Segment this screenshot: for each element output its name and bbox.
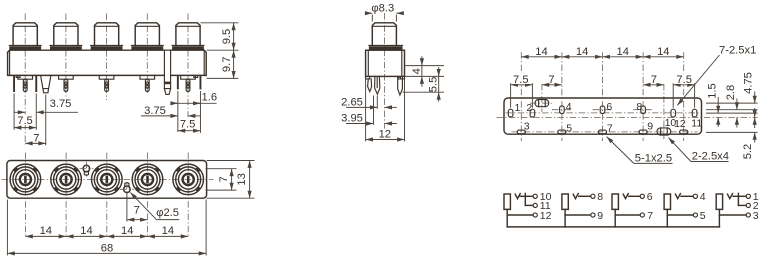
dim phi8.3 ext lines — [371, 15, 373, 22]
ground slot 2 (2.5x4) — [657, 128, 671, 135]
terminal 12 — [533, 213, 537, 217]
terminal 6 — [640, 194, 644, 198]
svg-text:7: 7 — [33, 132, 39, 144]
svg-text:14: 14 — [576, 46, 588, 58]
centerline single jack — [384, 13, 386, 138]
main horizontal centerline — [497, 116, 758, 118]
svg-text:12: 12 — [540, 210, 552, 222]
dim 2.8 — [736, 99, 738, 110]
svg-text:2: 2 — [526, 102, 532, 114]
dim 7 right (front) — [231, 169, 233, 190]
bottom tabs — [366, 76, 370, 79]
svg-text:1.5: 1.5 — [707, 83, 719, 99]
svg-text:13: 13 — [236, 173, 248, 185]
svg-text:14: 14 — [616, 46, 628, 58]
dim 12 — [366, 139, 405, 141]
dim 7 left — [25, 142, 46, 144]
pin 9 slot — [639, 130, 647, 134]
svg-text:7: 7 — [218, 176, 230, 182]
dim 7 right (bottom view) — [643, 84, 664, 86]
front centerline conn 5 — [187, 153, 189, 238]
svg-text:2-2.5x4: 2-2.5x4 — [692, 151, 729, 163]
svg-text:6: 6 — [606, 101, 612, 113]
svg-text:4: 4 — [411, 68, 423, 74]
body bottom step left — [16, 75, 20, 77]
jack symbol 3 (pins 6,7) — [612, 194, 640, 227]
dim 7.5 right: ext pin 11 — [199, 91, 201, 133]
body inner wall right — [203, 50, 205, 75]
svg-text:3.75: 3.75 — [50, 98, 72, 110]
dim 5.2 — [754, 108, 756, 117]
dim 7 left: ext line ground pin — [45, 95, 47, 146]
svg-text:14: 14 — [80, 225, 92, 237]
centerline jack 4 — [146, 14, 148, 94]
pin lug 3 (right) — [398, 76, 403, 95]
dim 7.5 left (bottom view) — [511, 84, 533, 86]
terminal 4 — [693, 194, 697, 198]
dim 5.5 — [438, 76, 440, 92]
front horizontal centerline — [2, 178, 214, 180]
dim 13 — [249, 161, 251, 199]
pin lug 2 — [375, 76, 380, 94]
svg-text:4: 4 — [566, 101, 572, 113]
centerline slot 1 — [541, 84, 543, 112]
svg-text:12: 12 — [379, 129, 391, 141]
connector 4 front — [132, 164, 163, 195]
dim 12: ext lines — [365, 80, 367, 142]
connector 2 front — [51, 164, 82, 195]
switch pin 1 (thin) — [13, 76, 15, 92]
connector 3 front — [92, 164, 123, 195]
svg-text:7.5: 7.5 — [676, 74, 692, 86]
svg-text:14: 14 — [162, 225, 174, 237]
pin 3 slot — [517, 130, 525, 134]
ground bar pin between jacks 4-5 — [165, 51, 170, 88]
svg-text:8: 8 — [636, 101, 642, 113]
dim 3.95 — [346, 123, 374, 125]
dim 7.5 left: ext line pin1 — [13, 94, 15, 130]
body outline side view — [8, 50, 207, 75]
terminal 3 — [746, 213, 750, 217]
svg-text:4.75: 4.75 — [742, 72, 754, 94]
svg-text:68: 68 — [101, 243, 113, 255]
slot1 horizontal centerline — [530, 102, 554, 104]
jack symbol 1 (pins 10,11,12) — [504, 193, 533, 227]
jack 5 side — [172, 23, 204, 92]
svg-text:7.5: 7.5 — [17, 115, 33, 127]
ground pin trapezoid between jacks 1-2 — [41, 75, 51, 92]
terminal 10 — [533, 194, 537, 198]
dim 9.5 / 9.7 extension lines (right of view 1) — [201, 22, 239, 24]
jack 4 side — [131, 23, 163, 92]
body inner wall left — [9, 50, 11, 75]
svg-text:14: 14 — [121, 225, 133, 237]
svg-text:7: 7 — [548, 74, 554, 86]
svg-text:5.5: 5.5 — [428, 77, 440, 93]
row A centerline — [506, 112, 702, 114]
svg-text:11: 11 — [691, 118, 702, 130]
pin 1 slot — [508, 109, 513, 117]
svg-text:7.5: 7.5 — [180, 118, 196, 130]
terminal 1 — [746, 194, 750, 198]
flange — [369, 45, 403, 47]
dim 4.75 — [754, 92, 756, 104]
row B centerline segments — [552, 109, 572, 111]
svg-text:3.95: 3.95 — [341, 113, 363, 125]
dim 3.75 left — [15, 111, 26, 113]
mounting hole 1 (top) — [83, 165, 90, 172]
pin 12 slot — [680, 130, 688, 134]
dim phi8.3 — [365, 12, 372, 14]
pin 8 slot — [641, 106, 646, 114]
svg-text:φ8.3: φ8.3 — [371, 2, 394, 14]
svg-text:φ2.5: φ2.5 — [156, 207, 179, 219]
terminal 9 — [591, 213, 595, 217]
pin 2 slot — [530, 109, 535, 117]
switch pin 11 (thin) — [200, 76, 202, 89]
centerline jack 1 bottom view — [520, 52, 522, 141]
svg-text:9.7: 9.7 — [221, 57, 233, 73]
svg-text:9.5: 9.5 — [221, 29, 233, 45]
svg-text:12: 12 — [674, 118, 686, 130]
common ground bus — [507, 226, 719, 228]
front centerline conn 4 — [147, 153, 149, 238]
svg-text:5-1x2.5: 5-1x2.5 — [635, 152, 672, 164]
dim 9.5 — [233, 23, 235, 50]
dim 7.5 right (bottom view) — [673, 84, 694, 86]
svg-text:3: 3 — [524, 121, 530, 133]
connector 1 front — [10, 164, 41, 195]
dim 7.5 left (bottom view): ext lines — [510, 83, 512, 108]
svg-text:7: 7 — [651, 74, 657, 86]
dim 3.75 left: ext line pin2 — [35, 94, 37, 115]
centerline jack 5 bottom view — [683, 52, 685, 141]
svg-text:2.65: 2.65 — [341, 97, 363, 109]
svg-text:8: 8 — [597, 191, 603, 203]
right side ext lines (bottom view) — [706, 102, 758, 104]
centerline slot 2 — [663, 84, 665, 141]
svg-text:7-2.5x1: 7-2.5x1 — [719, 45, 756, 57]
svg-text:5: 5 — [700, 210, 706, 222]
connector 5 front — [173, 164, 204, 195]
pin 10 slot — [671, 109, 676, 117]
svg-text:6: 6 — [647, 191, 653, 203]
mounting hole 2 (bottom, phi 2.5) — [124, 186, 131, 193]
dim 7.5 right (bottom view): ext lines — [672, 83, 674, 108]
dim 7.5 right — [178, 130, 201, 132]
pin lug 1 — [368, 79, 372, 92]
svg-text:7.5: 7.5 — [513, 74, 529, 86]
svg-text:1.6: 1.6 — [202, 92, 218, 104]
centerline jack 2 bottom view — [561, 52, 563, 141]
dim 4 / 5.5 ext lines — [405, 65, 445, 67]
svg-text:5: 5 — [566, 122, 572, 134]
dim 14 chain (bottom view) — [521, 56, 562, 58]
svg-text:14: 14 — [657, 46, 669, 58]
terminal 7 — [640, 213, 644, 217]
ground slot 1 (2.5x4) — [535, 100, 549, 107]
terminal 11 — [533, 203, 537, 207]
centerline jack 1 — [24, 14, 26, 145]
centerline jack 3 bottom view — [602, 52, 604, 141]
pin 4 slot — [560, 106, 565, 114]
svg-text:2.8: 2.8 — [725, 85, 737, 101]
pin 5 slot — [558, 130, 566, 134]
terminal 2 — [746, 203, 750, 207]
dim 13: ext lines — [207, 160, 255, 162]
body bottom step right — [194, 75, 198, 77]
svg-text:9: 9 — [647, 121, 653, 133]
dim 7 right (front): ext lines — [206, 168, 237, 170]
svg-text:3.75: 3.75 — [144, 105, 166, 117]
jack 3 side — [91, 23, 123, 92]
svg-text:14: 14 — [40, 225, 52, 237]
pin 11 slot — [692, 109, 697, 117]
cylinder — [372, 23, 396, 46]
jack 2 side — [50, 23, 82, 92]
dim 3.75 right: ext pin 10 — [177, 91, 179, 132]
svg-text:1: 1 — [515, 102, 521, 114]
dim 7.5 left — [14, 127, 36, 129]
terminal 5 — [693, 213, 697, 217]
label 2-2.5x4 with leader — [668, 138, 691, 162]
jack 1 side — [9, 23, 41, 92]
svg-text:7: 7 — [134, 205, 140, 217]
pin 7 slot — [598, 130, 606, 134]
centerline jack 2 — [65, 14, 67, 101]
svg-text:7: 7 — [647, 210, 653, 222]
row C centerline — [512, 131, 698, 133]
front centerline conn 3 — [106, 153, 108, 238]
label 5-1x2.5 with leader — [607, 137, 634, 164]
dim 1.5 — [717, 97, 719, 113]
jack symbol 4 (pins 4,5) — [664, 194, 693, 227]
svg-text:7: 7 — [607, 122, 613, 134]
svg-text:4: 4 — [700, 191, 706, 203]
dim 3.75 right — [141, 115, 178, 117]
centerline jack 5 — [187, 14, 189, 118]
label phi2.5 with leader — [130, 192, 156, 219]
centerline jack 4 bottom view — [642, 52, 644, 141]
svg-text:9: 9 — [597, 210, 603, 222]
body outline bottom view — [504, 98, 702, 134]
dim 9.7 — [233, 50, 235, 78]
body single jack — [366, 50, 405, 76]
dim 7 left (bottom view) — [542, 84, 562, 86]
label 7-2.5x1 with leader — [677, 55, 719, 105]
front body rect — [7, 161, 207, 199]
dim 68 — [7, 252, 206, 254]
front centerline conn 1 — [24, 153, 26, 238]
front centerline conn 2 — [65, 153, 67, 238]
svg-text:5.2: 5.2 — [742, 144, 754, 160]
dim 2.65: ext line — [376, 96, 378, 109]
jack symbol 5 (pins 1,2,3) — [716, 193, 746, 227]
pin 6 slot — [600, 106, 605, 114]
terminal 8 — [591, 194, 595, 198]
svg-text:14: 14 — [535, 46, 547, 58]
switch pin 2 (thin) — [35, 76, 37, 92]
svg-text:3: 3 — [753, 210, 759, 222]
dim 14 chain (front view) — [25, 235, 66, 237]
dim 7 (hole) — [127, 219, 148, 221]
dim 68: ext lines — [6, 200, 8, 256]
centerline jack 3 — [106, 14, 108, 101]
dim 7 (hole to conn4): ext line — [126, 193, 128, 222]
dim 4 — [421, 66, 423, 77]
switch pin 10 (thin) — [177, 76, 179, 89]
dim 1.6: line with arrows — [172, 102, 216, 104]
dim 3.95: ext line — [373, 96, 375, 125]
jack symbol 2 (pins 8,9) — [562, 194, 591, 227]
dim 2.65 — [346, 106, 377, 108]
